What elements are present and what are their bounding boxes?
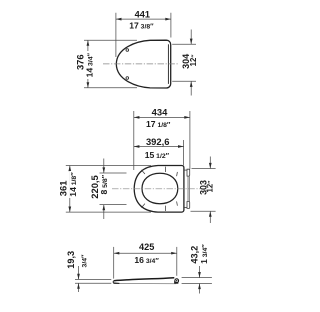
bumper tick top — [164, 167, 166, 172]
dim 434 arrows — [134, 116, 140, 119]
hinge plate bottom connector — [184, 207, 187, 209]
hinge circle — [175, 279, 179, 283]
dim 303 lines — [191, 157, 216, 224]
rear bumper under hinge — [174, 281, 179, 283]
centerline middle view — [112, 188, 200, 190]
seat ring inner opening — [142, 173, 178, 203]
bumper tick lower-right — [176, 201, 179, 205]
dim 220,5 lines — [100, 159, 127, 220]
dim 376 text — [76, 52, 84, 73]
bumper tick lower-left — [141, 204, 145, 208]
svg-text:19,3: 19,3 — [66, 251, 76, 269]
lid outline — [116, 40, 170, 88]
hinge pin dot — [176, 280, 178, 282]
dim 392,6 arrows — [134, 145, 140, 148]
dim 441 lines — [116, 13, 171, 57]
dim 43,2 arrows — [198, 272, 201, 278]
svg-text:3/4″: 3/4″ — [79, 254, 88, 267]
dim 376 arrows — [87, 40, 90, 46]
dim 361 lines — [66, 166, 151, 213]
dim 304 lines — [172, 30, 196, 96]
dim 434 lines — [134, 111, 190, 170]
front bumper — [114, 282, 120, 284]
centerline top view — [103, 63, 179, 65]
hinge plate top connector — [184, 169, 187, 171]
hinge bar — [187, 176, 189, 201]
svg-text:392,6: 392,6 — [146, 136, 169, 147]
dim 19,3 arrows — [77, 274, 80, 280]
dim 304 arrows — [190, 39, 193, 45]
dim 361 arrows — [68, 166, 71, 172]
dim 425 arrows — [114, 252, 120, 255]
svg-text:376: 376 — [74, 54, 85, 70]
svg-text:425: 425 — [139, 242, 154, 252]
svg-text:441: 441 — [135, 9, 150, 19]
bumper tick upper-left — [141, 170, 145, 174]
hinge lug top — [187, 169, 190, 176]
dim 43,2 lines — [182, 266, 212, 294]
dim 43,2 text — [189, 244, 198, 267]
dim 392,6 lines — [134, 140, 184, 165]
dim 19,3 text — [65, 249, 74, 272]
dim 220,5 arrows — [102, 167, 105, 173]
svg-text:361: 361 — [58, 181, 69, 197]
bumper tick bottom — [164, 206, 166, 211]
svg-text:434: 434 — [152, 107, 168, 118]
dim 425 lines — [114, 247, 177, 279]
svg-text:12″: 12″ — [206, 180, 215, 193]
seat ring outer outline — [134, 166, 184, 213]
lid hinge hole upper — [126, 49, 129, 52]
lid inner edge line — [167, 44, 169, 84]
seat nose — [113, 281, 114, 284]
svg-text:12″: 12″ — [189, 54, 198, 67]
bumper tick upper-right — [176, 172, 179, 176]
dim 376 lines — [84, 40, 137, 88]
lid hinge hole lower — [126, 77, 129, 80]
dim 303 arrows — [209, 163, 212, 169]
dim 220,5 text — [91, 173, 99, 201]
seat profile top edge — [114, 278, 174, 281]
svg-text:43,2: 43,2 — [189, 246, 199, 264]
dim 441 arrows — [116, 18, 122, 21]
hinge lug bottom — [187, 202, 190, 209]
dim 361 text — [59, 178, 67, 199]
dim 19,3 lines — [75, 266, 111, 292]
seat profile bottom edge — [114, 282, 176, 284]
